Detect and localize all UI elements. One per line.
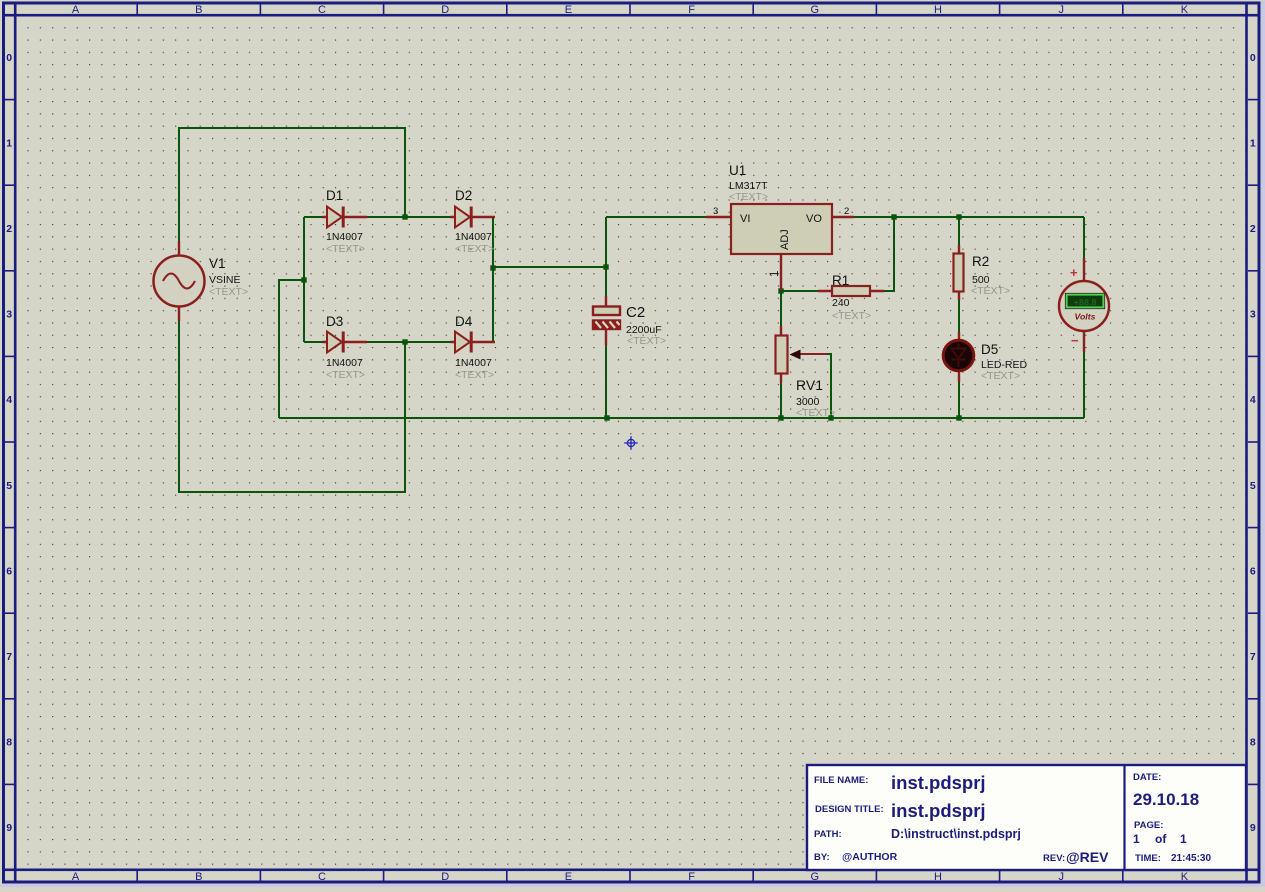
svg-text:6: 6	[1250, 565, 1256, 577]
svg-text:inst.pdsprj: inst.pdsprj	[891, 800, 986, 821]
junction C2 top node	[603, 264, 608, 269]
svg-text:DESIGN TITLE:: DESIGN TITLE:	[815, 804, 884, 815]
svg-text:4: 4	[1250, 394, 1256, 406]
diode D4 1N4007	[451, 314, 496, 381]
junction C2 ground node	[604, 415, 609, 420]
svg-text:8: 8	[1250, 737, 1256, 749]
wire: output line down to R2	[958, 217, 960, 245]
svg-text:H: H	[934, 871, 942, 883]
svg-text:C2: C2	[626, 304, 645, 321]
svg-text:1N4007: 1N4007	[326, 231, 363, 243]
svg-text:BY:: BY:	[814, 852, 830, 863]
svg-text:of: of	[1155, 832, 1167, 846]
svg-text:<TEXT>: <TEXT>	[455, 243, 494, 255]
svg-text:D: D	[441, 4, 449, 16]
junction bridge top AC	[402, 214, 407, 219]
svg-text:7: 7	[1250, 651, 1256, 663]
svg-text:<TEXT>: <TEXT>	[796, 407, 835, 419]
svg-text:Volts: Volts	[1075, 312, 1096, 322]
svg-text:G: G	[811, 871, 820, 883]
wire: R1 right lead up to output line	[884, 217, 894, 291]
wire: V1 top to bridge top junction	[179, 128, 405, 245]
junction R2 top node	[956, 214, 961, 219]
svg-text:K: K	[1181, 4, 1189, 16]
svg-text:J: J	[1058, 4, 1064, 16]
diode D2 1N4007	[451, 188, 496, 255]
svg-text:3: 3	[1250, 309, 1256, 321]
svg-text:F: F	[688, 4, 695, 16]
wire: C2 node vertical up to VI line	[605, 217, 607, 296]
svg-text:G: G	[811, 4, 820, 16]
junction left AC tap	[301, 277, 306, 282]
junction R1/VO node	[891, 214, 896, 219]
svg-text:<TEXT>: <TEXT>	[832, 310, 871, 322]
wire: R2 to D5	[958, 300, 960, 332]
potentiometer RV1 3000	[776, 326, 836, 419]
svg-text:A: A	[72, 4, 80, 16]
svg-text:C: C	[318, 4, 326, 16]
svg-text:1: 1	[6, 137, 12, 149]
svg-text:E: E	[565, 4, 572, 16]
svg-text:D:\instruct\inst.pdsprj: D:\instruct\inst.pdsprj	[891, 827, 1021, 841]
capacitor C2 2200uF	[593, 296, 666, 347]
title block	[807, 765, 1246, 870]
junction RV1 bottom node	[778, 415, 783, 420]
wire: bridge left vertical	[303, 217, 305, 342]
svg-text:REV:: REV:	[1043, 853, 1065, 864]
wire: bridge output to C2 node	[493, 266, 606, 268]
wire: voltmeter bottom to rail	[1083, 352, 1085, 418]
svg-text:2: 2	[6, 223, 12, 235]
svg-text:D3: D3	[326, 314, 343, 329]
wire: RV1 bottom to rail	[780, 383, 782, 418]
svg-text:R1: R1	[832, 273, 849, 288]
svg-text:D4: D4	[455, 314, 473, 329]
svg-text:E: E	[565, 871, 572, 883]
svg-text:2: 2	[1250, 223, 1256, 235]
svg-text:6: 6	[6, 565, 12, 577]
svg-text:D1: D1	[326, 188, 343, 203]
svg-text:240: 240	[832, 297, 850, 309]
svg-text:FILE NAME:: FILE NAME:	[814, 775, 868, 786]
junction bridge bottom AC	[402, 339, 407, 344]
svg-text:7: 7	[6, 651, 12, 663]
svg-text:<TEXT>: <TEXT>	[627, 335, 666, 347]
svg-text:0: 0	[6, 52, 12, 64]
svg-text:ADJ: ADJ	[779, 229, 791, 250]
svg-text:B: B	[195, 871, 202, 883]
svg-text:0: 0	[1250, 52, 1256, 64]
svg-text:D2: D2	[455, 188, 472, 203]
svg-text:H: H	[934, 4, 942, 16]
voltmeter	[1059, 258, 1109, 352]
wire: V1 bottom to bridge lower junction	[179, 317, 405, 492]
junction ADJ/R1/RV1 node	[778, 288, 783, 293]
svg-text:4: 4	[6, 394, 12, 406]
svg-text:DATE:: DATE:	[1133, 772, 1161, 783]
svg-text:<TEXT>: <TEXT>	[971, 285, 1010, 297]
svg-text:8: 8	[6, 737, 12, 749]
svg-text:1N4007: 1N4007	[455, 231, 492, 243]
svg-text:RV1: RV1	[796, 377, 823, 393]
svg-text:3: 3	[6, 309, 12, 321]
wire: D5 to rail	[958, 382, 960, 418]
diode D3 1N4007	[323, 314, 368, 381]
svg-text:TIME:: TIME:	[1135, 853, 1161, 864]
svg-text:2: 2	[844, 206, 849, 217]
svg-text:PAGE:: PAGE:	[1134, 820, 1163, 831]
svg-text:D: D	[441, 871, 449, 883]
svg-text:1: 1	[1250, 137, 1256, 149]
wire: RV1 wiper to rail	[826, 354, 831, 418]
wire: AC tap from left vertical to bottom rail	[279, 280, 304, 418]
resistor R2 500	[954, 245, 1011, 300]
wire: node to U1 VI pin	[606, 216, 706, 218]
svg-text:@REV: @REV	[1066, 849, 1109, 865]
resistor R1 240	[818, 273, 884, 322]
svg-text:F: F	[688, 871, 695, 883]
wire: U1 VO pin to output line	[854, 216, 1084, 218]
svg-text:<TEXT>: <TEXT>	[455, 369, 494, 381]
wire: bottom rail	[279, 417, 1084, 419]
sheet origin marker	[624, 436, 638, 450]
svg-text:+: +	[1070, 265, 1078, 280]
svg-text:U1: U1	[729, 163, 746, 178]
svg-text:K: K	[1181, 871, 1189, 883]
svg-text:<TEXT>: <TEXT>	[326, 243, 365, 255]
svg-text:D5: D5	[981, 342, 998, 357]
wire: R1 node down to RV1 top	[780, 291, 782, 326]
svg-text:PATH:: PATH:	[814, 829, 842, 840]
junction RV1 wiper node	[828, 415, 833, 420]
svg-text:1: 1	[1180, 832, 1187, 846]
svg-text:<TEXT>: <TEXT>	[209, 286, 248, 298]
wire: C2 bottom to rail	[605, 344, 607, 418]
LED D5 LED-RED	[943, 332, 1027, 382]
wire: bridge top row D1-D2	[304, 216, 493, 218]
svg-text:+88.8: +88.8	[1074, 298, 1097, 308]
svg-text:<TEXT>: <TEXT>	[326, 369, 365, 381]
wire: R1 node to R1 left lead	[781, 290, 818, 292]
svg-text:B: B	[195, 4, 202, 16]
svg-text:inst.pdsprj: inst.pdsprj	[891, 772, 986, 793]
svg-text:5: 5	[6, 480, 12, 492]
wire: bridge right vertical	[492, 217, 494, 342]
junction bridge DC+ output	[490, 265, 495, 270]
svg-text:@AUTHOR: @AUTHOR	[842, 851, 898, 863]
svg-text:1N4007: 1N4007	[455, 357, 492, 369]
svg-text:1: 1	[769, 271, 781, 277]
svg-text:1: 1	[1133, 832, 1140, 846]
regulator U1 LM317T	[706, 163, 854, 290]
svg-text:5: 5	[1250, 480, 1256, 492]
svg-text:3: 3	[713, 206, 718, 217]
svg-text:V1: V1	[209, 256, 226, 271]
svg-text:<TEXT>: <TEXT>	[729, 191, 768, 203]
svg-text:VSINE: VSINE	[209, 274, 241, 286]
svg-text:J: J	[1058, 871, 1064, 883]
wire: output line down to voltmeter	[1083, 217, 1085, 258]
AC source V1 VSINE	[154, 241, 249, 321]
svg-text:C: C	[318, 871, 326, 883]
diode D1 1N4007	[323, 188, 368, 255]
svg-text:VI: VI	[740, 213, 750, 225]
svg-text:9: 9	[1250, 822, 1256, 834]
svg-text:21:45:30: 21:45:30	[1171, 853, 1211, 864]
svg-text:A: A	[72, 871, 80, 883]
svg-text:1N4007: 1N4007	[326, 357, 363, 369]
wire: bridge bottom row D3-D4	[304, 341, 493, 343]
svg-text:9: 9	[6, 822, 12, 834]
svg-text:R2: R2	[972, 254, 989, 269]
svg-text:29.10.18: 29.10.18	[1133, 790, 1199, 809]
svg-text:<TEXT>: <TEXT>	[981, 370, 1020, 382]
junction D5 ground node	[956, 415, 961, 420]
svg-text:−: −	[1071, 333, 1079, 348]
svg-text:VO: VO	[806, 213, 822, 225]
